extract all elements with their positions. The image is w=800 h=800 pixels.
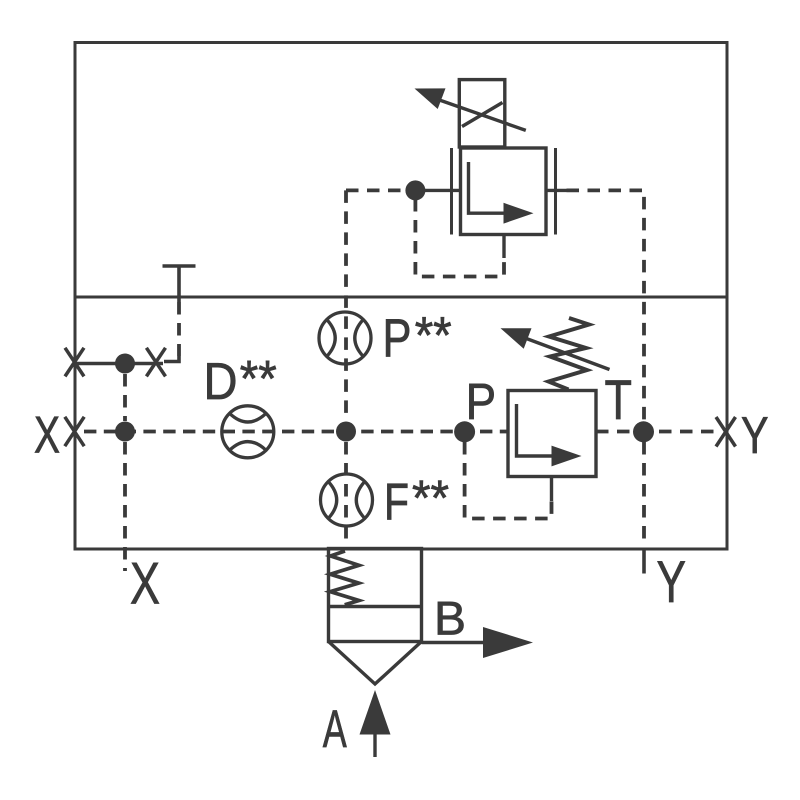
orifice D** [222,406,274,458]
plugged-port cross left [65,348,84,377]
check valve body [329,549,422,642]
junction dot pilot inlet [405,180,425,200]
check valve spring [330,551,359,605]
check valve internal line [329,605,422,608]
svg-text:P: P [383,309,412,369]
pilot valve flow arrow [469,162,507,213]
port B wire [422,641,485,644]
adjustment box diagonal [462,103,503,127]
pilot outlet dashed wire to Y [567,190,645,421]
junction dot center [336,422,356,442]
svg-text:X: X [34,407,60,465]
junction dot T/Y [633,421,654,442]
valve housing outer box [75,43,727,550]
orifice P** [319,312,371,364]
wire X drain below lower-left dot [123,442,127,571]
pilot valve bottom port wire [502,235,505,259]
label D** [204,350,277,411]
wire P pilot dashed vertical through orifices [344,190,348,421]
svg-text:F: F [384,474,409,532]
spring adjustability arrowhead [501,328,532,349]
main valve flow arrow [517,404,555,456]
adjustability arrowhead [415,88,446,109]
adjustability arrow shaft [438,100,526,131]
junction dot lower-left [115,422,135,442]
main X-Y pilot line dashed left part [84,430,507,434]
main valve bottom port wire [550,477,553,502]
svg-text:**: ** [240,350,277,407]
plugged-port cross X on left box edge [65,417,84,446]
vent plug T symbol [163,266,196,362]
svg-text:D: D [204,353,238,411]
orifice F** [321,474,373,526]
main X-Y pilot line dashed right part [596,430,715,434]
main relief valve body [508,391,596,477]
svg-text:Y: Y [741,407,769,465]
wire dashed between upper and lower left dots [123,374,127,421]
pilot valve outlet wire right [546,189,567,192]
svg-text:P: P [466,373,497,430]
junction dot upper-left [115,354,135,374]
pilot relief valve U1: adjustment box [459,80,505,147]
svg-text:A: A [323,700,347,759]
label P** [383,307,452,369]
svg-text:**: ** [415,307,452,365]
pilot valve right rail [554,148,557,235]
junction dot P [454,421,475,442]
housing divider line [75,296,727,299]
pilot relief valve U1: body [461,148,547,235]
main valve drain dashed loop [465,442,552,519]
svg-text:**: ** [412,470,449,526]
label F** [384,470,449,532]
plugged-port cross right [146,348,165,377]
pilot drain dashed loop [415,199,504,277]
wire dashed Y below dot [642,442,646,545]
port B arrow [483,627,533,658]
pilot valve left rail [450,148,453,235]
port A arrow [360,690,391,735]
pilot valve inlet wire [415,189,460,192]
check valve poppet funnel [329,642,422,685]
wire dashed horizontal to pilot valve [346,188,406,192]
spring adjustability arrow shaft [525,338,610,370]
svg-text:T: T [605,368,633,431]
svg-text:Y: Y [657,549,687,615]
svg-text:X: X [130,551,160,617]
wire Y stub below box edge [642,550,646,574]
svg-text:B: B [434,593,466,646]
plugged-port cross Y on right box edge [716,417,736,447]
upper pilot port line [75,362,163,365]
main valve spring [549,318,590,390]
